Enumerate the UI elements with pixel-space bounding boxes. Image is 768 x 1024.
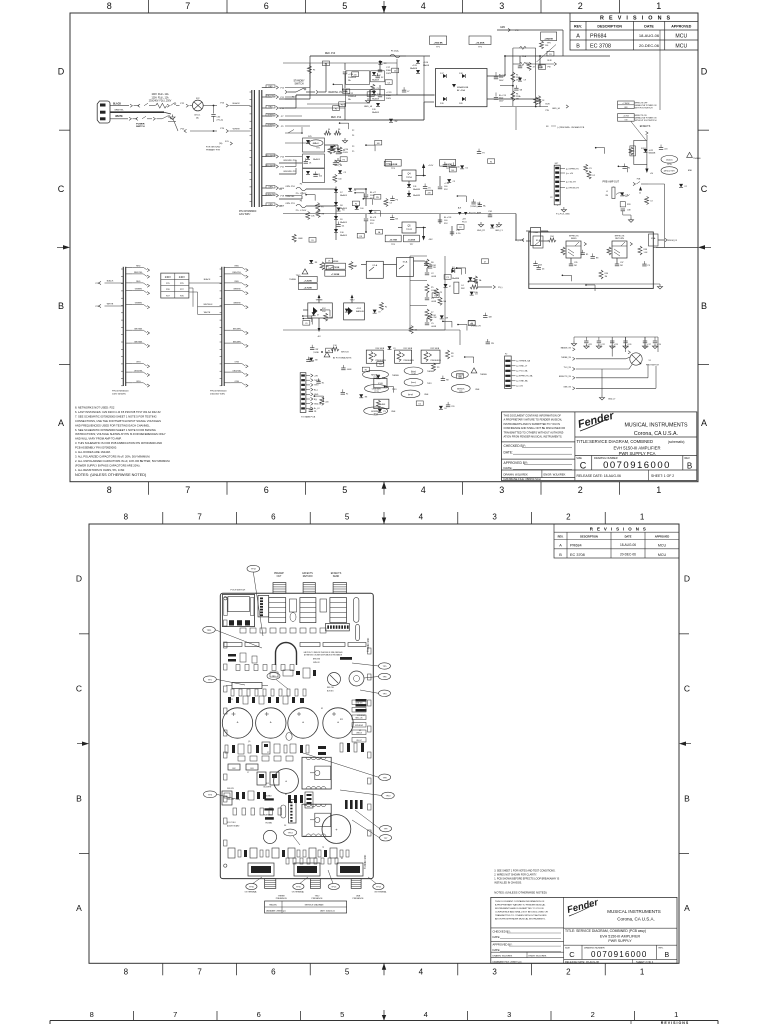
lower mid filler 2 resistor — [428, 313, 432, 321]
svg-text:4: 4 — [421, 485, 426, 495]
svg-text:EVH 5150-III AMPLIFIER: EVH 5150-III AMPLIFIER — [613, 446, 660, 451]
connector P1 pin 3 — [301, 384, 305, 386]
svg-text:ORN: ORN — [268, 186, 273, 188]
connector P1 pin 6 — [301, 398, 305, 400]
junction wires bottom middle — [319, 329, 460, 331]
svg-text:9A4008: 9A4008 — [372, 79, 380, 82]
jack J2 PREAMP OUT — [273, 583, 286, 594]
svg-text:THREE: THREE — [427, 371, 434, 373]
mid band filler 3 diode — [355, 206, 359, 210]
mid band filler 3 capacitor — [391, 196, 393, 199]
page 1 bottom centre alignment arrow — [383, 482, 385, 495]
svg-text:[=>TVO_SA: [=>TVO_SA — [517, 370, 528, 373]
resistor R9 right of pots — [446, 350, 450, 359]
mid right band filler capacitor — [473, 199, 475, 202]
svg-text:THREE_SV: THREE_SV — [561, 357, 572, 359]
connector P20 pin 3 — [505, 370, 510, 372]
svg-text:10000uF: 10000uF — [348, 96, 357, 98]
connector F1_PCX pin 8 — [555, 199, 559, 201]
wire CB to transformer — [203, 105, 213, 107]
svg-text:BLACK: BLACK — [113, 103, 121, 106]
svg-text:C7: C7 — [247, 772, 249, 774]
svg-text:AND FREQUENCIES USED FOR TESTI: AND FREQUENCIES USED FOR TESTING EACH CH… — [75, 423, 151, 427]
cap C37 loop — [616, 258, 618, 264]
svg-text:C7: C7 — [267, 752, 269, 754]
effects loop outer box — [529, 232, 654, 288]
svg-text:P3: P3 — [383, 411, 385, 413]
svg-text:-15.7/0K: -15.7/0K — [389, 240, 397, 242]
svg-text:F5 21A+: F5 21A+ — [391, 50, 400, 53]
page 2 right centre arrow — [685, 743, 691, 745]
svg-text:7: 7 — [185, 1, 190, 11]
svg-text:GRN/YEL: GRN/YEL — [114, 110, 124, 112]
page 2 bottom zone tick — [531, 963, 533, 975]
long resistor R1 — [232, 683, 262, 689]
component cluster upper mid — [270, 672, 278, 677]
svg-text:L1: L1 — [606, 191, 608, 193]
mid band filler part outline — [376, 229, 383, 234]
svg-text:P2+ L 250V: P2+ L 250V — [296, 210, 307, 212]
svg-text:THREE: THREE — [480, 374, 487, 376]
svg-text:2: 2 — [578, 485, 583, 495]
wire RED lower rail — [279, 119, 406, 121]
page 2 left zone tick — [79, 633, 89, 635]
svg-text:TIP42: TIP42 — [406, 229, 413, 231]
svg-text:20-DEC-06: 20-DEC-06 — [620, 553, 636, 557]
svg-text:RED +US: RED +US — [356, 717, 363, 719]
svg-text:C9: C9 — [354, 265, 356, 267]
svg-text:P5: P5 — [352, 151, 354, 153]
snubber R6 C2 — [425, 259, 429, 268]
svg-text:APPROVED: APPROVED — [655, 535, 670, 539]
mid band filler diode — [369, 210, 373, 214]
svg-text:C9: C9 — [524, 80, 526, 82]
svg-text:R50 10KB: R50 10KB — [376, 348, 385, 350]
connector F1_PCX pin 4 — [555, 181, 559, 183]
mid band filler wire stub — [366, 144, 375, 146]
lower mid filler resistor — [320, 262, 324, 270]
vertical joint x397 — [396, 59, 398, 95]
footswitch bypass cap C27 — [644, 337, 646, 341]
fuse F5 sub — [390, 54, 400, 58]
top band filler part outline — [343, 89, 350, 94]
svg-text:18-AUG-06: 18-AUG-06 — [620, 543, 636, 547]
top band filler resistor — [307, 66, 311, 74]
oval THREE (top) — [661, 156, 678, 164]
page 1 title block outline — [501, 412, 696, 481]
pcb small parts row B — [236, 665, 240, 671]
oval RED/BLU TP10 THREE — [363, 370, 389, 378]
top-right rail wire GRN — [497, 29, 563, 31]
svg-text:CEO-1: CEO-1 — [194, 115, 201, 117]
lower mid filler 2 wire stub — [303, 315, 312, 317]
svg-text:47: 47 — [317, 314, 319, 316]
top band filler capacitor — [377, 73, 379, 76]
page 1 top zone tick — [226, 0, 228, 13]
wire RED rail to rectifier — [279, 98, 310, 100]
svg-text:TP12: TP12 — [374, 413, 378, 415]
svg-text:200V: 200V — [499, 100, 504, 102]
svg-text:NODE: NODE — [641, 148, 647, 150]
connector P20 pin 6 — [505, 385, 510, 387]
svg-text:TWO: TWO — [427, 383, 432, 385]
mid band filler part outline — [340, 157, 347, 162]
mid band filler resistor — [333, 174, 337, 182]
svg-text:-6V: -6V — [317, 336, 321, 338]
svg-text:K2-A: K2-A — [372, 264, 377, 267]
TO-220 pair Q2 Q3 — [257, 772, 266, 785]
heatsink T2 footprint — [302, 757, 331, 789]
lower mid filler wire stub — [453, 268, 462, 270]
mid right band filler capacitor — [478, 149, 480, 152]
svg-text:GND_LY: GND_LY — [495, 230, 504, 232]
svg-text:REV.: REV. — [558, 535, 564, 539]
TP10 oval with leader — [382, 792, 395, 799]
svg-text:RELEASE DATE: 18-AUG-06: RELEASE DATE: 18-AUG-06 — [565, 960, 600, 964]
svg-text:A: A — [58, 418, 64, 428]
relay K3 footprint — [300, 598, 316, 623]
lower mid filler part outline — [482, 259, 489, 264]
svg-text:GND_RY: GND_RY — [477, 230, 486, 232]
lower mid filler wire stub — [468, 281, 477, 283]
svg-text:D4: D4 — [337, 149, 339, 151]
svg-text:P/N 0070828000: P/N 0070828000 — [239, 211, 257, 213]
page 2 right zone tick — [679, 633, 689, 635]
bottom band filler part outline — [362, 367, 369, 372]
svg-text:PREAMP: PREAMP — [274, 572, 284, 575]
svg-text:P1(-): P1(-) — [498, 287, 503, 289]
breakaway loop wire — [276, 643, 297, 666]
svg-text:K2: K2 — [341, 858, 343, 860]
svg-text:SERVICE DIAGRAM: SERVICE DIAGRAM — [305, 904, 324, 907]
lower mid filler diode — [468, 277, 472, 281]
svg-text:0070916000: 0070916000 — [603, 460, 671, 471]
page 1 right zone tick — [698, 129, 709, 131]
resistor pair near green taps — [324, 131, 331, 135]
svg-text:47: 47 — [471, 323, 473, 325]
mid right band filler diode — [460, 165, 464, 169]
svg-text:SWITCH: SWITCH — [294, 84, 303, 86]
mid band filler resistor — [292, 234, 296, 242]
mid band filler 3 part outline — [357, 233, 364, 238]
right mid filler resistor — [645, 197, 649, 205]
TP14 oval bottom — [373, 883, 384, 889]
svg-text:1. ALL RESISTORS IN OHMS, 5%,: 1. ALL RESISTORS IN OHMS, 5%, 1/4W. — [75, 468, 125, 472]
top band filler wire stub — [340, 122, 349, 124]
svg-text:C: C — [76, 684, 82, 694]
svg-text:R1: R1 — [496, 227, 498, 229]
footswitch bypass cap C26 — [625, 337, 627, 341]
svg-text:8: 8 — [107, 485, 112, 495]
svg-text:D4: D4 — [475, 294, 477, 296]
svg-text:ORN: ORN — [268, 204, 273, 206]
cap C19 label — [495, 93, 497, 97]
top band filler wire stub — [333, 83, 342, 85]
svg-text:+16V: +16V — [428, 165, 434, 167]
snubber loop box top right — [513, 47, 536, 49]
page 1 top zone tick — [148, 0, 150, 13]
svg-text:R8: R8 — [433, 267, 435, 269]
mid band filler part outline — [375, 140, 382, 145]
svg-text:THREE: THREE — [289, 279, 296, 281]
wire RED/YEL rail — [279, 107, 296, 109]
svg-text:SHEET 2 OF 2: SHEET 2 OF 2 — [636, 960, 654, 964]
svg-text:PW: PW — [546, 110, 549, 112]
svg-text:7: 7 — [185, 485, 190, 495]
svg-text:TP9: TP9 — [459, 391, 462, 393]
svg-text:BROWN .P20: BROWN .P20 — [284, 160, 298, 162]
SCR D52 pair — [308, 303, 333, 318]
svg-text:.0068: .0068 — [298, 238, 303, 240]
svg-text:4: 4 — [419, 513, 424, 522]
svg-text:ORN .P16: ORN .P16 — [285, 186, 295, 188]
transistor Q4 pads — [262, 742, 270, 754]
node HV junction dots — [504, 55, 506, 57]
svg-text:3300: 3300 — [386, 95, 392, 97]
page 2 bottom zone tick — [236, 963, 238, 975]
page 2 right zone tick — [679, 852, 689, 854]
svg-text:[=>+6V: [=>+6V — [517, 385, 524, 388]
svg-text:P3: P3 — [589, 168, 591, 170]
mid band filler wire stub — [363, 198, 372, 200]
presence pot R52 ONE — [421, 350, 440, 363]
bottom band filler 2 resistor — [376, 400, 380, 408]
svg-text:GND_LY: GND_LY — [608, 399, 616, 401]
svg-text:THREE: THREE — [278, 895, 285, 897]
svg-text:HO/BE2: HO/BE2 — [266, 823, 273, 825]
svg-text:9A444B: 9A444B — [649, 152, 656, 155]
svg-text:P3: P3 — [440, 292, 442, 294]
svg-text:THIS DOCUMENT CONTAINS INFORMA: THIS DOCUMENT CONTAINS INFORMATION OF — [504, 414, 562, 418]
svg-text:-16.0/0K: -16.0/0K — [408, 240, 416, 242]
svg-text:P3: P3 — [343, 159, 345, 161]
svg-text:F2: F2 — [685, 186, 687, 188]
svg-text:9A4008: 9A4008 — [372, 111, 380, 114]
wire rail y56 extension — [310, 55, 406, 57]
relay K1-B box — [374, 378, 387, 387]
svg-text:6: 6 — [271, 513, 276, 522]
resistor F6 220A 5W — [511, 91, 515, 101]
svg-text:[=>GND_LY: [=>GND_LY — [517, 365, 528, 368]
heatsink T3 footprint — [302, 804, 331, 836]
relay K5-A right — [649, 234, 659, 246]
top right filler part outline — [539, 65, 546, 70]
svg-text:3: 3 — [492, 967, 497, 976]
svg-text:(Violet): (Violet) — [666, 158, 673, 161]
wire row y330 extension — [283, 329, 319, 331]
relay K2-B in loop — [533, 236, 543, 248]
lower mid filler 2 diode — [312, 312, 316, 316]
svg-text:PRESENCE: PRESENCE — [352, 898, 364, 900]
svg-text:ON TERMINAL: ON TERMINAL — [374, 890, 386, 893]
svg-text:R36: R36 — [605, 273, 608, 275]
mid band filler 3 capacitor — [334, 160, 336, 163]
oval mid (lime) TWO — [404, 378, 423, 386]
connector P1 pin 8 — [301, 407, 305, 409]
svg-text:100V: 100V — [343, 152, 348, 154]
capacitor C20 ladder out — [325, 144, 339, 146]
svg-text:TP11: TP11 — [374, 391, 378, 393]
top right filler capacitor — [515, 85, 517, 88]
page 1 top centre alignment arrow — [383, 1, 385, 13]
pcb small parts row E — [233, 808, 237, 815]
lower mid filler part outline — [303, 321, 310, 326]
value box +75V(A) — [430, 36, 447, 45]
footswitch jack X1 — [630, 353, 642, 365]
page 1 left zone tick — [59, 129, 70, 131]
power switch S2 white side — [129, 117, 131, 120]
svg-text:F2: F2 — [335, 108, 337, 110]
mid band filler 3 wire stub — [355, 192, 364, 194]
diode ladder second pair — [303, 169, 325, 183]
svg-text:RETURN: RETURN — [615, 238, 624, 240]
transformer tap BROWN/W P21 — [262, 166, 272, 168]
svg-text:ON TERMINAL: ON TERMINAL — [292, 890, 304, 893]
page 3 top zone tick — [467, 1011, 469, 1021]
svg-text:WHT/BLK: WHT/BLK — [204, 304, 214, 306]
svg-text:PILOT LAMP: PILOT LAMP — [469, 212, 482, 215]
svg-text:WHITE: WHITE — [233, 128, 241, 130]
footswitch bypass cap C23 — [611, 337, 613, 341]
mid right band filler diode — [447, 179, 451, 183]
svg-text:BL+C17: BL+C17 — [499, 75, 506, 77]
svg-text:APPROVED: APPROVED — [671, 25, 692, 29]
right mid filler diode — [679, 184, 683, 188]
top right filler resistor — [540, 41, 544, 49]
svg-text:[=> SD_FX: [=> SD_FX — [566, 180, 577, 183]
svg-text:C35: C35 — [574, 262, 577, 264]
resistor F5 220A 5W — [511, 72, 515, 82]
bottom band filler capacitor — [442, 376, 444, 379]
relay K3-C coil circuit — [634, 140, 647, 164]
svg-text:2W: 2W — [338, 164, 341, 166]
svg-text:9A4448: 9A4448 — [413, 188, 421, 191]
svg-text:200V: 200V — [386, 98, 392, 100]
TP12 oval with leader — [247, 565, 260, 572]
svg-text:F2: F2 — [459, 227, 461, 229]
svg-text:FOR GROUND: FOR GROUND — [206, 147, 221, 149]
svg-text:PRESENCE: PRESENCE — [311, 898, 323, 900]
leader from TP5 box — [537, 45, 557, 63]
svg-text:2W: 2W — [376, 197, 379, 199]
loop area filler capacitor — [643, 261, 645, 264]
svg-text:(schematic): (schematic) — [668, 440, 684, 444]
svg-text:3. ALL POLARIZED CAPACITORS IN: 3. ALL POLARIZED CAPACITORS IN uF, 20%, … — [75, 454, 150, 458]
svg-text:P3: P3 — [482, 153, 484, 155]
svg-text:TIP50: TIP50 — [406, 177, 413, 179]
value box +16.0K TP5b — [440, 160, 456, 167]
svg-text:Corona, CA U.S.A.: Corona, CA U.S.A. — [634, 431, 678, 437]
svg-text:6. SEE SCHEMATIC 0070929000 SH: 6. SEE SCHEMATIC 0070929000 SHEET 1 NOTE… — [75, 428, 156, 432]
svg-text:+0.76/0K: +0.76/0K — [304, 287, 313, 289]
transformer tap ORN P19 — [262, 205, 272, 207]
transformer tap RED P12 — [262, 107, 272, 109]
svg-text:P2+ L 250V: P2+ L 250V — [296, 193, 307, 195]
svg-text:REV.: REV. — [574, 25, 582, 29]
cap C40 round — [263, 830, 276, 843]
svg-text:TEA/DWL: TEA/DWL — [269, 904, 277, 907]
svg-text:ONE: ONE — [424, 394, 429, 396]
page 2 revisions table grid — [554, 524, 679, 558]
ground GND_HI near rectifier — [367, 98, 369, 101]
loop bottom rail — [529, 283, 660, 285]
footswitch vertical riser c — [616, 337, 618, 359]
PCB mounting hole bottom-left — [224, 864, 227, 867]
wire loop out right — [656, 247, 698, 249]
svg-text:DATABASE: 28869?.pcb: DATABASE: 28869?.pcb — [266, 910, 286, 913]
filter cap C16 — [439, 176, 441, 186]
svg-text:.0068: .0068 — [385, 164, 390, 166]
capacitor C19 filter — [379, 85, 381, 95]
lower mid filler resistor — [324, 313, 328, 321]
mid band filler diode — [330, 146, 334, 150]
svg-text:RETURN: RETURN — [303, 576, 313, 578]
svg-text:47: 47 — [449, 286, 451, 288]
cap C8 doubler — [365, 214, 367, 218]
svg-text:MUSICAL INSTRUMENTS: MUSICAL INSTRUMENTS — [607, 909, 661, 914]
connector P1 to main pcb — [300, 373, 306, 413]
page 1 top zone tick — [540, 0, 542, 13]
svg-text:MCU: MCU — [675, 33, 687, 39]
svg-text:200V: 200V — [386, 73, 392, 75]
svg-text:SHEET: 1 OF 2: SHEET: 1 OF 2 — [651, 474, 674, 478]
connector P20 pad — [339, 625, 341, 628]
chassis ground symbol — [172, 115, 174, 118]
lower mid filler 2 resistor — [438, 297, 442, 305]
svg-text:F6: F6 — [328, 129, 330, 131]
bus junction to effects loop — [515, 214, 517, 241]
svg-text:ORN LV: ORN LV — [356, 732, 363, 734]
svg-text:[=>THREE_SA: [=>THREE_SA — [517, 360, 531, 363]
svg-text:A: A — [559, 543, 562, 547]
svg-text:ORN .P19: ORN .P19 — [285, 203, 295, 205]
svg-text:PWR SUPPLY PCA: PWR SUPPLY PCA — [619, 451, 656, 456]
svg-text:D4: D4 — [342, 226, 344, 228]
svg-text:A: A — [701, 418, 707, 428]
svg-text:120V: F1& L 12A: 120V: F1& L 12A — [152, 96, 169, 99]
svg-text:THREE: THREE — [392, 375, 399, 377]
preamp out resistor R33 — [620, 202, 625, 207]
svg-text:5: 5 — [345, 967, 350, 976]
svg-text:A PROPRIETARY NATURE TO FENDER: A PROPRIETARY NATURE TO FENDER MUSICAL — [504, 418, 563, 422]
bottom band filler part outline — [457, 374, 464, 379]
svg-text:7: 7 — [173, 1010, 177, 1019]
svg-text:BLU WG: BLU WG — [356, 710, 363, 712]
svg-text:C: C — [569, 950, 575, 959]
TP13 oval with leader — [284, 829, 297, 836]
svg-text:U1: U1 — [359, 730, 361, 732]
page 1 right centre arrow — [704, 246, 711, 248]
TP9 oval with leader — [380, 825, 392, 831]
svg-text:P2: P2 — [550, 197, 552, 199]
svg-text:EFFECTS: EFFECTS — [615, 236, 625, 238]
svg-text:100: 100 — [459, 376, 462, 378]
svg-text:PR684: PR684 — [570, 543, 582, 547]
svg-text:2. ALL UNPOLARIZED CAPACITORS: 2. ALL UNPOLARIZED CAPACITORS IN uF, 10%… — [75, 459, 170, 463]
svg-text:2: 2 — [578, 1, 583, 11]
svg-text:B: B — [559, 553, 562, 557]
AC inlet connector J1 — [97, 101, 110, 123]
svg-text:RED .P10: RED .P10 — [325, 53, 336, 55]
bottom band filler part outline — [326, 348, 333, 353]
vertical rail x660 — [659, 30, 661, 110]
relay K2 footprint — [269, 598, 286, 623]
top band filler part outline — [367, 92, 374, 97]
page 1 right zone tick — [698, 364, 709, 366]
connector F1_PCX label [=> +6V — [560, 172, 565, 174]
lower mid filler capacitor — [425, 260, 427, 263]
top right filler resistor — [527, 62, 531, 70]
